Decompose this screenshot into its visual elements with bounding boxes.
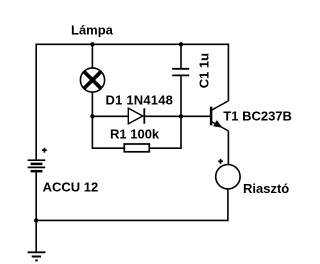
svg-text:ACCU 12: ACCU 12 <box>43 180 99 195</box>
wire diode cathode to transistor base <box>144 115 210 117</box>
wire battery negative down to ground <box>35 172 37 252</box>
svg-text:Riasztó: Riasztó <box>243 181 289 196</box>
transistor T1 BC237B <box>211 101 228 131</box>
resistor R1 <box>124 144 149 152</box>
junction dot: capacitor / top rail node <box>179 42 183 46</box>
battery plus sign <box>42 148 47 153</box>
capacitor C1 <box>172 69 189 76</box>
wire lamp bottom down to resistor branch corner <box>92 92 124 148</box>
battery B1 (ACCU 12) <box>28 160 46 171</box>
wire top rail <box>35 43 228 45</box>
wire resistor right to diode-cathode node <box>149 116 181 148</box>
wire capacitor bottom lead <box>180 76 182 116</box>
alarm plus sign <box>218 159 223 164</box>
alarm sounder (Riasztó) <box>216 165 240 189</box>
svg-text:R1 100k: R1 100k <box>110 127 160 142</box>
junction dot: base node <box>179 114 183 118</box>
junction dot: battery / bottom rail node <box>34 218 38 222</box>
svg-text:Lámpa: Lámpa <box>71 23 114 38</box>
diode D1 1N4148 <box>128 108 144 124</box>
wire alarm to bottom rail <box>227 189 229 221</box>
wire bottom rail <box>36 219 228 221</box>
ground symbol <box>28 252 46 260</box>
junction dot: diode anode node <box>90 114 94 118</box>
wire collector up to top rail <box>227 44 229 101</box>
wire lamp feed <box>91 44 93 68</box>
wire left rail from top rail to battery positive <box>35 44 37 160</box>
wire diode anode <box>92 115 128 117</box>
svg-text:D1 1N4148: D1 1N4148 <box>106 92 174 107</box>
wire capacitor top lead <box>180 44 182 68</box>
svg-text:C1 1u: C1 1u <box>196 53 211 88</box>
junction dot: lamp / top rail node <box>90 42 94 46</box>
svg-text:T1 BC237B: T1 BC237B <box>223 108 292 123</box>
wire emitter down to alarm <box>227 131 229 164</box>
lamp (Lámpa): circle with X <box>80 68 104 92</box>
